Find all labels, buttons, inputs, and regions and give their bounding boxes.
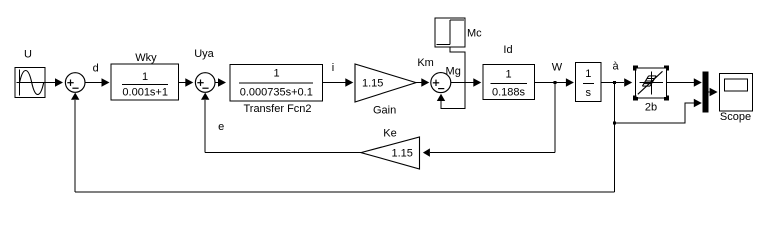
wire Id to integrator [535, 82, 566, 84]
svg-text:Ke: Ke [383, 128, 396, 140]
svg-text:à: à [612, 61, 619, 73]
svg-text:Mg: Mg [446, 66, 461, 78]
junction dot on branch [613, 121, 616, 124]
svg-text:e: e [218, 121, 224, 133]
sum junction S1 [65, 73, 85, 93]
outer feedback wire left vertical [74, 100, 76, 192]
svg-text:0.188s: 0.188s [492, 87, 526, 99]
wire U to sum1 [45, 82, 55, 84]
arrowhead into Id [473, 78, 481, 86]
svg-text:U: U [24, 49, 32, 61]
wire up into sum2 bottom [204, 100, 206, 153]
wire integrator to 2b [601, 82, 624, 84]
svg-text:Gain: Gain [373, 105, 396, 117]
Ke feedback wire right segment [430, 152, 555, 154]
wire S2 to Transfer Fcn2 [215, 82, 218, 84]
transfer fcn block Id [483, 64, 535, 99]
scope block [719, 73, 752, 111]
svg-text:d: d [93, 63, 99, 75]
selection handle top-right [664, 65, 669, 70]
svg-text:0.000735s+0.1: 0.000735s+0.1 [240, 86, 313, 98]
block 2b (relay, selected) [636, 68, 667, 98]
svg-text:Id: Id [503, 44, 512, 56]
svg-text:Uya: Uya [194, 48, 214, 60]
svg-text:i: i [332, 62, 334, 74]
mux block [703, 72, 709, 113]
arrowhead into mux top [694, 78, 702, 86]
wire branch vertical from node a to outer loop [614, 83, 616, 193]
svg-text:Wky: Wky [135, 52, 157, 64]
svg-text:0.001s+1: 0.001s+1 [122, 87, 168, 99]
svg-text:1: 1 [505, 69, 511, 81]
wire 2b to mux [667, 82, 694, 84]
gain block Ke 1.15 (left pointing) [361, 137, 420, 169]
svg-text:Mc: Mc [467, 28, 482, 40]
wire Wky to sum2 [179, 82, 186, 84]
source block U (sine wave) [15, 68, 45, 98]
arrowhead into sum1 bottom [71, 93, 79, 100]
selection handle bottom-left [633, 95, 638, 100]
svg-text:1: 1 [273, 68, 279, 80]
svg-text:Transfer Fcn2: Transfer Fcn2 [243, 103, 311, 115]
wire Gain to sum3 [416, 82, 421, 84]
svg-text:1: 1 [142, 71, 148, 83]
svg-text:s: s [586, 87, 592, 99]
step block Mc [435, 18, 465, 47]
arrowhead into sum2 [185, 78, 193, 86]
junction dot W [553, 81, 556, 84]
Ke feedback wire left segment [205, 152, 361, 154]
svg-text:2b: 2b [645, 102, 657, 114]
arrowhead into Ke gain [423, 148, 430, 156]
arrowhead into integrator [566, 78, 574, 86]
svg-text:1: 1 [585, 68, 591, 80]
arrowhead into sum2 bottom [201, 93, 209, 100]
gain block Gain 1.15 [355, 64, 416, 102]
arrowhead into mux bottom [694, 99, 702, 107]
svg-text:Km: Km [417, 57, 434, 69]
wire S1 to Wky [85, 82, 102, 84]
wire mux to scope [709, 91, 710, 93]
wire Mc to sum3 [441, 47, 465, 109]
integrator block 1/s [576, 62, 601, 101]
arrowhead into 2b [624, 78, 632, 86]
transfer fcn block Wky [111, 64, 179, 100]
arrowhead into sum3 bottom [437, 94, 445, 101]
outer feedback wire bottom [75, 191, 615, 193]
arrowhead into Transfer Fcn2 [218, 78, 226, 86]
junction dot a [613, 81, 616, 84]
svg-text:1.15: 1.15 [362, 77, 383, 89]
wire branch to mux bottom [615, 103, 694, 123]
selection handle bottom-right [664, 95, 669, 100]
arrowhead into sum3 [421, 78, 429, 86]
svg-text:W: W [552, 62, 563, 74]
svg-text:1.15: 1.15 [392, 147, 413, 159]
wire sum3 to Id [451, 82, 474, 84]
wire Transfer Fcn2 to Gain [323, 82, 346, 84]
svg-text:Scope: Scope [720, 111, 751, 123]
sum junction S2 [195, 73, 215, 93]
selection handle top-left [633, 65, 638, 70]
sum junction S3 [431, 73, 451, 93]
arrowhead into Gain [345, 78, 353, 86]
wire branch W down to Ke feedback [554, 83, 556, 153]
arrowhead into scope [710, 88, 718, 96]
arrowhead into sum1 [55, 78, 63, 86]
arrowhead into Wky [102, 78, 110, 86]
transfer fcn block Transfer Fcn2 [230, 65, 323, 102]
